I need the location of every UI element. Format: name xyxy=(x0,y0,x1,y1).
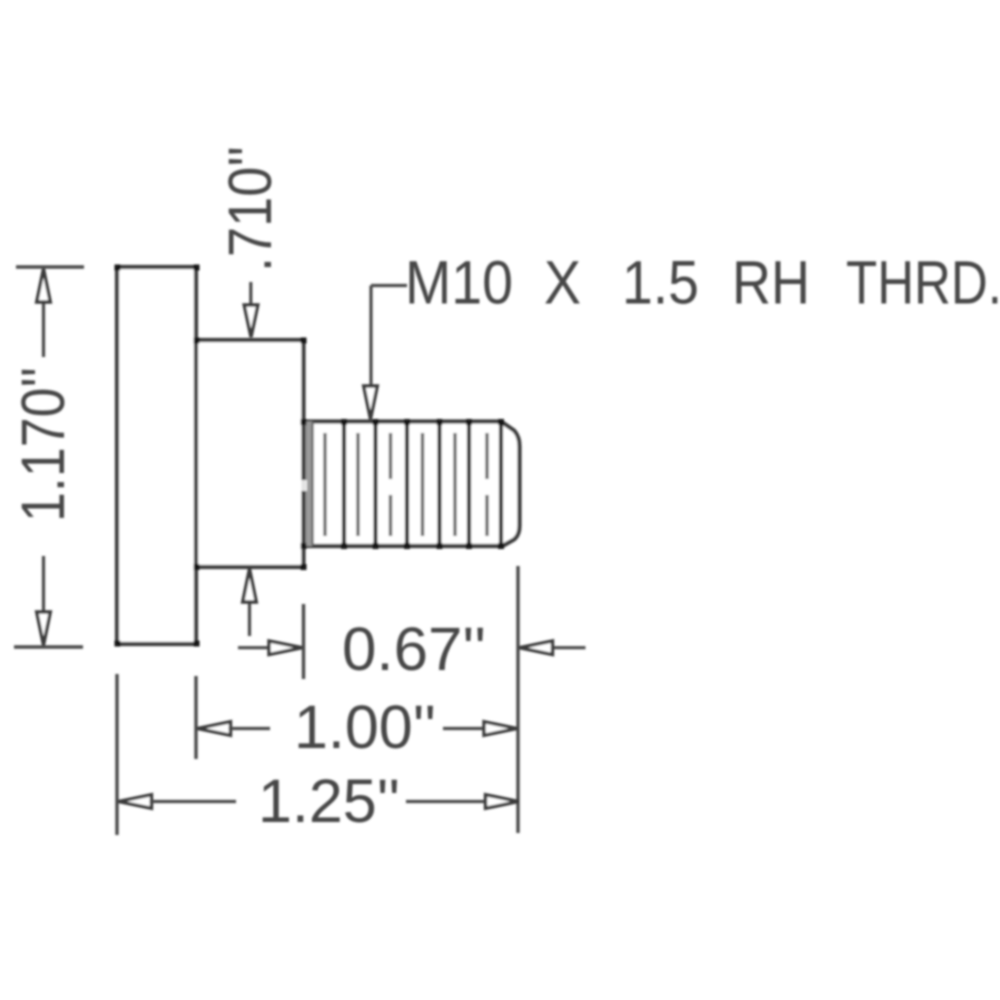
thread root line 3 (broken) xyxy=(389,433,392,536)
thread crest line 6 xyxy=(499,422,503,547)
thread root line 1 xyxy=(323,433,326,536)
svg-text:0.67'': 0.67'' xyxy=(342,615,486,683)
dim 1.170 dimension line upper segment xyxy=(42,270,45,357)
svg-text:1.170'': 1.170'' xyxy=(9,367,77,522)
dim 1.00 left-pointing arrowhead xyxy=(198,722,231,736)
right shared extension line xyxy=(516,566,519,833)
shoulder body outline xyxy=(196,340,304,567)
thread crest line 5 xyxy=(467,422,471,547)
dim .710 up arrowhead xyxy=(243,569,257,602)
corner junction dots xyxy=(115,265,505,647)
thread root line 5 xyxy=(453,433,456,536)
dim 1.170 bottom extension line xyxy=(14,645,83,648)
thread crest line 4 xyxy=(437,422,441,547)
dim 1.25 left tail xyxy=(150,800,237,803)
note leader horizontal segment xyxy=(371,284,407,287)
dim 0.67 left tail xyxy=(238,646,272,649)
dim 1.00 left tail xyxy=(229,727,271,730)
dim 0.67 right tail xyxy=(550,646,586,649)
dim 1.170 dimension line lower segment xyxy=(42,556,45,641)
dim .710 upper leader line xyxy=(249,282,252,309)
thread body outline with rounded end xyxy=(304,422,520,547)
dim 1.170 down arrowhead xyxy=(37,612,51,645)
note leader vertical segment xyxy=(369,286,372,389)
thread root line 2 xyxy=(356,433,359,536)
dim 1.00 right tail xyxy=(443,727,486,730)
svg-text:X: X xyxy=(544,249,581,317)
thread crest line 2 xyxy=(373,422,377,547)
dim 0.67 left-pointing arrowhead xyxy=(520,641,553,655)
svg-text:1.5: 1.5 xyxy=(622,249,699,317)
svg-text:M10: M10 xyxy=(405,249,513,317)
thread runout band right edge xyxy=(311,422,314,545)
dim 0.67 left extension line xyxy=(302,604,305,679)
dim 1.00 left extension line xyxy=(194,676,197,759)
thread runout gray band xyxy=(304,422,313,547)
thread crest line 3 xyxy=(405,422,409,547)
white centerline gap on thread start edge xyxy=(300,480,307,491)
svg-text:1.00'': 1.00'' xyxy=(294,693,436,761)
dim 1.25 right tail xyxy=(406,800,487,803)
svg-text:RH: RH xyxy=(732,249,810,317)
dim .710 lower leader line xyxy=(248,600,251,636)
dim 1.170 top extension line xyxy=(16,265,84,268)
dim 1.170 up arrowhead xyxy=(37,269,51,302)
flange body outline xyxy=(117,267,196,644)
dim .710 down arrowhead xyxy=(244,305,258,337)
dim 1.25 left extension line xyxy=(115,674,118,835)
svg-text:.710'': .710'' xyxy=(216,146,284,272)
svg-text:THRD.: THRD. xyxy=(846,249,1000,317)
dim 0.67 right-pointing arrowhead xyxy=(269,641,302,655)
note leader down arrowhead xyxy=(364,386,378,419)
dim 1.25 left-pointing arrowhead xyxy=(119,795,152,809)
dim 1.25 right-pointing arrowhead xyxy=(486,795,519,809)
thread root line 4 xyxy=(421,433,424,536)
dim 1.00 right-pointing arrowhead xyxy=(484,722,517,736)
thread root line 6 (broken) xyxy=(485,433,488,536)
svg-text:1.25'': 1.25'' xyxy=(258,767,400,835)
thread crest line 1 xyxy=(342,422,346,547)
